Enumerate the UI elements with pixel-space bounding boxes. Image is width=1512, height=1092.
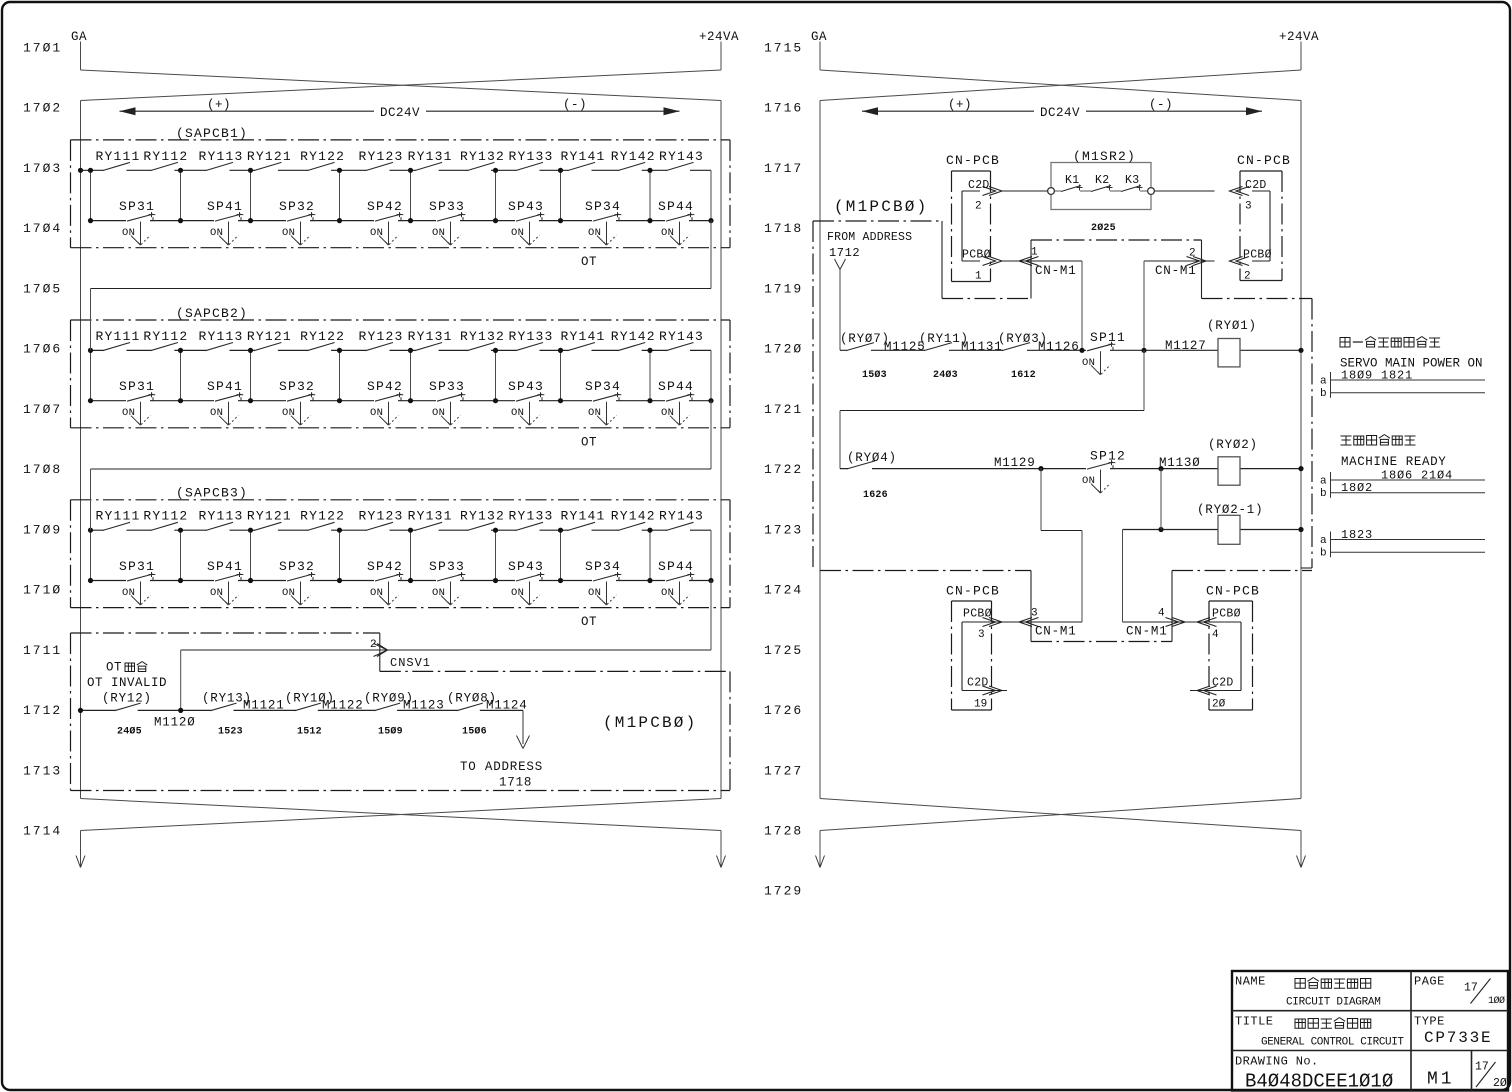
svg-text:17Ø2: 17Ø2 xyxy=(23,101,62,116)
svg-text:M1129: M1129 xyxy=(994,456,1036,470)
svg-text:SP31: SP31 xyxy=(119,379,155,394)
svg-text:RY132: RY132 xyxy=(460,509,505,524)
svg-text:2: 2 xyxy=(975,201,982,213)
svg-text:(RYØ2-1): (RYØ2-1) xyxy=(1197,503,1263,517)
svg-text:1729: 1729 xyxy=(764,884,803,899)
svg-text:RY131: RY131 xyxy=(408,329,453,344)
svg-text:RY112: RY112 xyxy=(143,149,188,164)
svg-text:15Ø3: 15Ø3 xyxy=(862,369,887,381)
svg-text:1ØØ: 1ØØ xyxy=(1488,995,1505,1007)
svg-text:RY113: RY113 xyxy=(199,329,244,344)
svg-text:(+): (+) xyxy=(948,98,972,112)
svg-text:PCBØ: PCBØ xyxy=(962,249,991,262)
svg-text:SP33: SP33 xyxy=(429,199,465,214)
svg-text:17Ø5: 17Ø5 xyxy=(23,281,62,296)
svg-text:M1124: M1124 xyxy=(486,699,528,713)
svg-text:RY143: RY143 xyxy=(659,329,704,344)
svg-text:4: 4 xyxy=(1212,629,1219,641)
svg-text:RY112: RY112 xyxy=(143,509,188,524)
svg-text:RY143: RY143 xyxy=(659,509,704,524)
svg-text:M1131: M1131 xyxy=(961,340,1003,354)
svg-text:RY123: RY123 xyxy=(359,509,404,524)
svg-text:M113Ø: M113Ø xyxy=(1159,456,1201,470)
svg-text:1719: 1719 xyxy=(764,281,803,296)
svg-text:B4Ø48DCEE1Ø1Ø: B4Ø48DCEE1Ø1Ø xyxy=(1245,1071,1393,1092)
svg-text:(M1PCBØ): (M1PCBØ) xyxy=(603,714,697,732)
svg-text:(RYØ2): (RYØ2) xyxy=(1208,438,1258,452)
svg-text:(RYØ1): (RYØ1) xyxy=(1207,319,1257,333)
svg-text:(+): (+) xyxy=(207,98,231,112)
svg-text:RY142: RY142 xyxy=(611,149,656,164)
svg-text:DC24V: DC24V xyxy=(380,106,420,120)
svg-text:1728: 1728 xyxy=(764,823,803,838)
svg-text:SP43: SP43 xyxy=(508,379,544,394)
svg-text:171Ø: 171Ø xyxy=(23,583,62,598)
svg-text:RY131: RY131 xyxy=(408,149,453,164)
svg-text:3: 3 xyxy=(978,629,985,641)
svg-text:RY141: RY141 xyxy=(561,509,606,524)
svg-text:1523: 1523 xyxy=(218,727,243,738)
svg-text:15Ø9: 15Ø9 xyxy=(378,726,403,738)
svg-text:1626: 1626 xyxy=(863,490,888,501)
svg-text:18Ø6: 18Ø6 xyxy=(1381,469,1413,483)
svg-text:17: 17 xyxy=(1475,1061,1489,1074)
svg-text:(RYØ7): (RYØ7) xyxy=(840,332,890,346)
svg-text:(RY12): (RY12) xyxy=(102,692,152,706)
svg-text:(SAPCB3): (SAPCB3) xyxy=(176,486,248,501)
svg-text:2: 2 xyxy=(370,639,377,651)
svg-text:DC24V: DC24V xyxy=(1040,106,1080,120)
svg-text:CN-PCB: CN-PCB xyxy=(946,584,1000,599)
svg-text:CN-PCB: CN-PCB xyxy=(946,153,1000,168)
svg-text:RY142: RY142 xyxy=(611,509,656,524)
svg-text:24Ø5: 24Ø5 xyxy=(117,726,142,738)
svg-text:1821: 1821 xyxy=(1381,369,1413,383)
svg-text:M1121: M1121 xyxy=(243,699,285,713)
svg-text:2Ø: 2Ø xyxy=(1493,1077,1507,1090)
svg-text:3: 3 xyxy=(1245,201,1252,213)
svg-text:FROM ADDRESS: FROM ADDRESS xyxy=(827,231,912,244)
svg-text:MACHINE READY: MACHINE READY xyxy=(1341,455,1446,469)
svg-text:SP33: SP33 xyxy=(429,379,465,394)
svg-text:(SAPCB2): (SAPCB2) xyxy=(176,306,248,321)
svg-text:1723: 1723 xyxy=(764,522,803,537)
svg-text:SP12: SP12 xyxy=(1090,449,1126,464)
svg-text:17Ø1: 17Ø1 xyxy=(23,41,62,56)
svg-text:(M1PCBØ): (M1PCBØ) xyxy=(834,198,928,216)
svg-text:TYPE: TYPE xyxy=(1414,1015,1445,1029)
svg-text:M1122: M1122 xyxy=(322,699,364,713)
svg-text:SP44: SP44 xyxy=(658,379,694,394)
svg-text:1712: 1712 xyxy=(829,246,860,260)
svg-text:CN-PCB: CN-PCB xyxy=(1237,153,1291,168)
svg-text:CNSV1: CNSV1 xyxy=(390,656,431,670)
svg-text:a: a xyxy=(1320,476,1327,488)
svg-text:CN-M1: CN-M1 xyxy=(1035,625,1077,639)
svg-text:SP33: SP33 xyxy=(429,559,465,574)
svg-text:OT: OT xyxy=(581,255,597,269)
svg-text:17Ø4: 17Ø4 xyxy=(23,221,62,236)
svg-text:1727: 1727 xyxy=(764,763,803,778)
svg-text:19: 19 xyxy=(974,699,987,711)
svg-text:RY121: RY121 xyxy=(247,149,292,164)
svg-text:2Ø: 2Ø xyxy=(1212,699,1226,711)
svg-text:SP31: SP31 xyxy=(119,199,155,214)
svg-text:RY111: RY111 xyxy=(96,149,141,164)
svg-text:RY141: RY141 xyxy=(561,149,606,164)
svg-text:SP43: SP43 xyxy=(508,559,544,574)
svg-text:RY133: RY133 xyxy=(509,329,554,344)
svg-text:+24VA: +24VA xyxy=(1279,30,1319,44)
svg-text:M1123: M1123 xyxy=(403,699,445,713)
svg-text:C2D: C2D xyxy=(1245,179,1267,192)
svg-text:172Ø: 172Ø xyxy=(764,342,803,357)
svg-text:RY111: RY111 xyxy=(96,329,141,344)
svg-text:RY131: RY131 xyxy=(408,509,453,524)
svg-text:K1: K1 xyxy=(1065,174,1079,187)
svg-text:1823: 1823 xyxy=(1341,528,1373,542)
svg-text:b: b xyxy=(1320,488,1327,500)
svg-text:1: 1 xyxy=(975,271,982,283)
svg-text:RY122: RY122 xyxy=(300,509,345,524)
svg-text:RY142: RY142 xyxy=(611,329,656,344)
svg-text:CIRCUIT DIAGRAM: CIRCUIT DIAGRAM xyxy=(1286,997,1381,1009)
svg-text:GA: GA xyxy=(811,30,827,44)
svg-text:CN-M1: CN-M1 xyxy=(1155,264,1197,278)
svg-text:(SAPCB1): (SAPCB1) xyxy=(176,126,248,141)
svg-text:M1126: M1126 xyxy=(1038,340,1080,354)
svg-text:2Ø25: 2Ø25 xyxy=(1091,222,1116,234)
svg-text:(RYØ4): (RYØ4) xyxy=(847,451,897,465)
svg-text:SP34: SP34 xyxy=(585,199,621,214)
svg-text:SP34: SP34 xyxy=(585,559,621,574)
svg-text:17Ø8: 17Ø8 xyxy=(23,462,62,477)
svg-text:+24VA: +24VA xyxy=(699,30,739,44)
svg-text:15Ø6: 15Ø6 xyxy=(462,726,487,738)
svg-text:1713: 1713 xyxy=(23,763,62,778)
svg-text:SP41: SP41 xyxy=(207,559,243,574)
svg-text:RY122: RY122 xyxy=(300,149,345,164)
svg-text:18Ø2: 18Ø2 xyxy=(1341,481,1373,495)
svg-text:a: a xyxy=(1320,535,1327,547)
svg-text:1718: 1718 xyxy=(499,776,532,790)
svg-text:1612: 1612 xyxy=(1011,370,1036,381)
svg-text:(-): (-) xyxy=(563,98,587,112)
svg-text:GENERAL CONTROL CIRCUIT: GENERAL CONTROL CIRCUIT xyxy=(1261,1037,1404,1049)
svg-text:RY123: RY123 xyxy=(359,149,404,164)
svg-text:1512: 1512 xyxy=(297,727,322,738)
svg-text:SP43: SP43 xyxy=(508,199,544,214)
svg-text:M1: M1 xyxy=(1427,1070,1455,1090)
svg-text:C2D: C2D xyxy=(967,677,989,690)
svg-text:M112Ø: M112Ø xyxy=(154,716,196,730)
svg-text:C2D: C2D xyxy=(1212,677,1234,690)
svg-text:RY121: RY121 xyxy=(247,329,292,344)
svg-text:1721: 1721 xyxy=(764,402,803,417)
svg-text:SP32: SP32 xyxy=(279,559,315,574)
svg-text:GA: GA xyxy=(71,30,87,44)
svg-text:RY112: RY112 xyxy=(143,329,188,344)
svg-text:RY123: RY123 xyxy=(359,329,404,344)
svg-text:4: 4 xyxy=(1158,608,1165,620)
svg-text:SP42: SP42 xyxy=(367,199,403,214)
svg-text:RY133: RY133 xyxy=(509,509,554,524)
svg-text:SP32: SP32 xyxy=(279,199,315,214)
svg-text:CN-M1: CN-M1 xyxy=(1035,264,1077,278)
svg-text:17Ø7: 17Ø7 xyxy=(23,402,62,417)
svg-text:PCBØ: PCBØ xyxy=(963,608,992,621)
svg-text:1715: 1715 xyxy=(764,41,803,56)
svg-text:CP733E: CP733E xyxy=(1424,1029,1492,1047)
svg-text:K3: K3 xyxy=(1125,174,1139,187)
svg-text:RY143: RY143 xyxy=(659,149,704,164)
svg-text:SP42: SP42 xyxy=(367,559,403,574)
svg-text:RY132: RY132 xyxy=(460,149,505,164)
svg-text:1711: 1711 xyxy=(23,643,62,658)
svg-text:17Ø6: 17Ø6 xyxy=(23,342,62,357)
svg-text:1724: 1724 xyxy=(764,583,803,598)
svg-text:SP44: SP44 xyxy=(658,199,694,214)
svg-text:17Ø9: 17Ø9 xyxy=(23,522,62,537)
svg-text:(-): (-) xyxy=(1149,98,1173,112)
svg-text:OT: OT xyxy=(581,615,597,629)
svg-text:PCBØ: PCBØ xyxy=(1243,249,1272,262)
svg-text:C2D: C2D xyxy=(968,179,990,192)
svg-text:OT INVALID: OT INVALID xyxy=(87,676,167,690)
svg-text:1: 1 xyxy=(1031,247,1038,259)
svg-text:1726: 1726 xyxy=(764,703,803,718)
svg-text:RY132: RY132 xyxy=(460,329,505,344)
svg-text:OT: OT xyxy=(581,435,597,449)
svg-text:DRAWING No.: DRAWING No. xyxy=(1235,1055,1319,1069)
svg-text:SP11: SP11 xyxy=(1090,330,1126,345)
svg-text:CN-PCB: CN-PCB xyxy=(1206,584,1260,599)
svg-text:NAME: NAME xyxy=(1235,975,1266,989)
svg-text:3: 3 xyxy=(1031,608,1038,620)
svg-text:RY133: RY133 xyxy=(509,149,554,164)
svg-text:2: 2 xyxy=(1189,248,1196,260)
svg-text:SP34: SP34 xyxy=(585,379,621,394)
svg-text:1712: 1712 xyxy=(23,703,62,718)
svg-text:TO ADDRESS: TO ADDRESS xyxy=(460,760,543,774)
svg-text:K2: K2 xyxy=(1095,174,1109,187)
svg-text:1725: 1725 xyxy=(764,643,803,658)
svg-text:SP31: SP31 xyxy=(119,559,155,574)
svg-text:1714: 1714 xyxy=(23,823,62,838)
svg-text:24Ø3: 24Ø3 xyxy=(933,369,958,381)
svg-text:PCBØ: PCBØ xyxy=(1212,608,1241,621)
svg-text:RY113: RY113 xyxy=(199,509,244,524)
svg-text:21Ø4: 21Ø4 xyxy=(1421,469,1453,483)
svg-text:OT: OT xyxy=(106,661,122,675)
svg-text:2: 2 xyxy=(1244,271,1251,283)
svg-text:SP44: SP44 xyxy=(658,559,694,574)
svg-text:M1127: M1127 xyxy=(1165,339,1207,353)
svg-text:1718: 1718 xyxy=(764,221,803,236)
svg-text:SP32: SP32 xyxy=(279,379,315,394)
svg-text:a: a xyxy=(1320,376,1327,388)
svg-text:18Ø9: 18Ø9 xyxy=(1341,369,1373,383)
svg-text:1716: 1716 xyxy=(764,101,803,116)
svg-text:RY141: RY141 xyxy=(561,329,606,344)
svg-text:b: b xyxy=(1320,548,1327,560)
svg-text:PAGE: PAGE xyxy=(1414,975,1445,989)
svg-text:1722: 1722 xyxy=(764,462,803,477)
svg-text:RY121: RY121 xyxy=(247,509,292,524)
svg-text:1717: 1717 xyxy=(764,161,803,176)
svg-text:RY113: RY113 xyxy=(199,149,244,164)
svg-text:b: b xyxy=(1320,388,1327,400)
svg-text:SP41: SP41 xyxy=(207,379,243,394)
svg-text:CN-M1: CN-M1 xyxy=(1126,625,1168,639)
svg-text:(M1SR2): (M1SR2) xyxy=(1073,149,1136,164)
svg-text:TITLE: TITLE xyxy=(1235,1015,1274,1029)
svg-text:RY122: RY122 xyxy=(300,329,345,344)
svg-text:17: 17 xyxy=(1464,982,1478,995)
svg-text:SP41: SP41 xyxy=(207,199,243,214)
svg-text:17Ø3: 17Ø3 xyxy=(23,161,62,176)
svg-text:SP42: SP42 xyxy=(367,379,403,394)
svg-text:RY111: RY111 xyxy=(96,509,141,524)
